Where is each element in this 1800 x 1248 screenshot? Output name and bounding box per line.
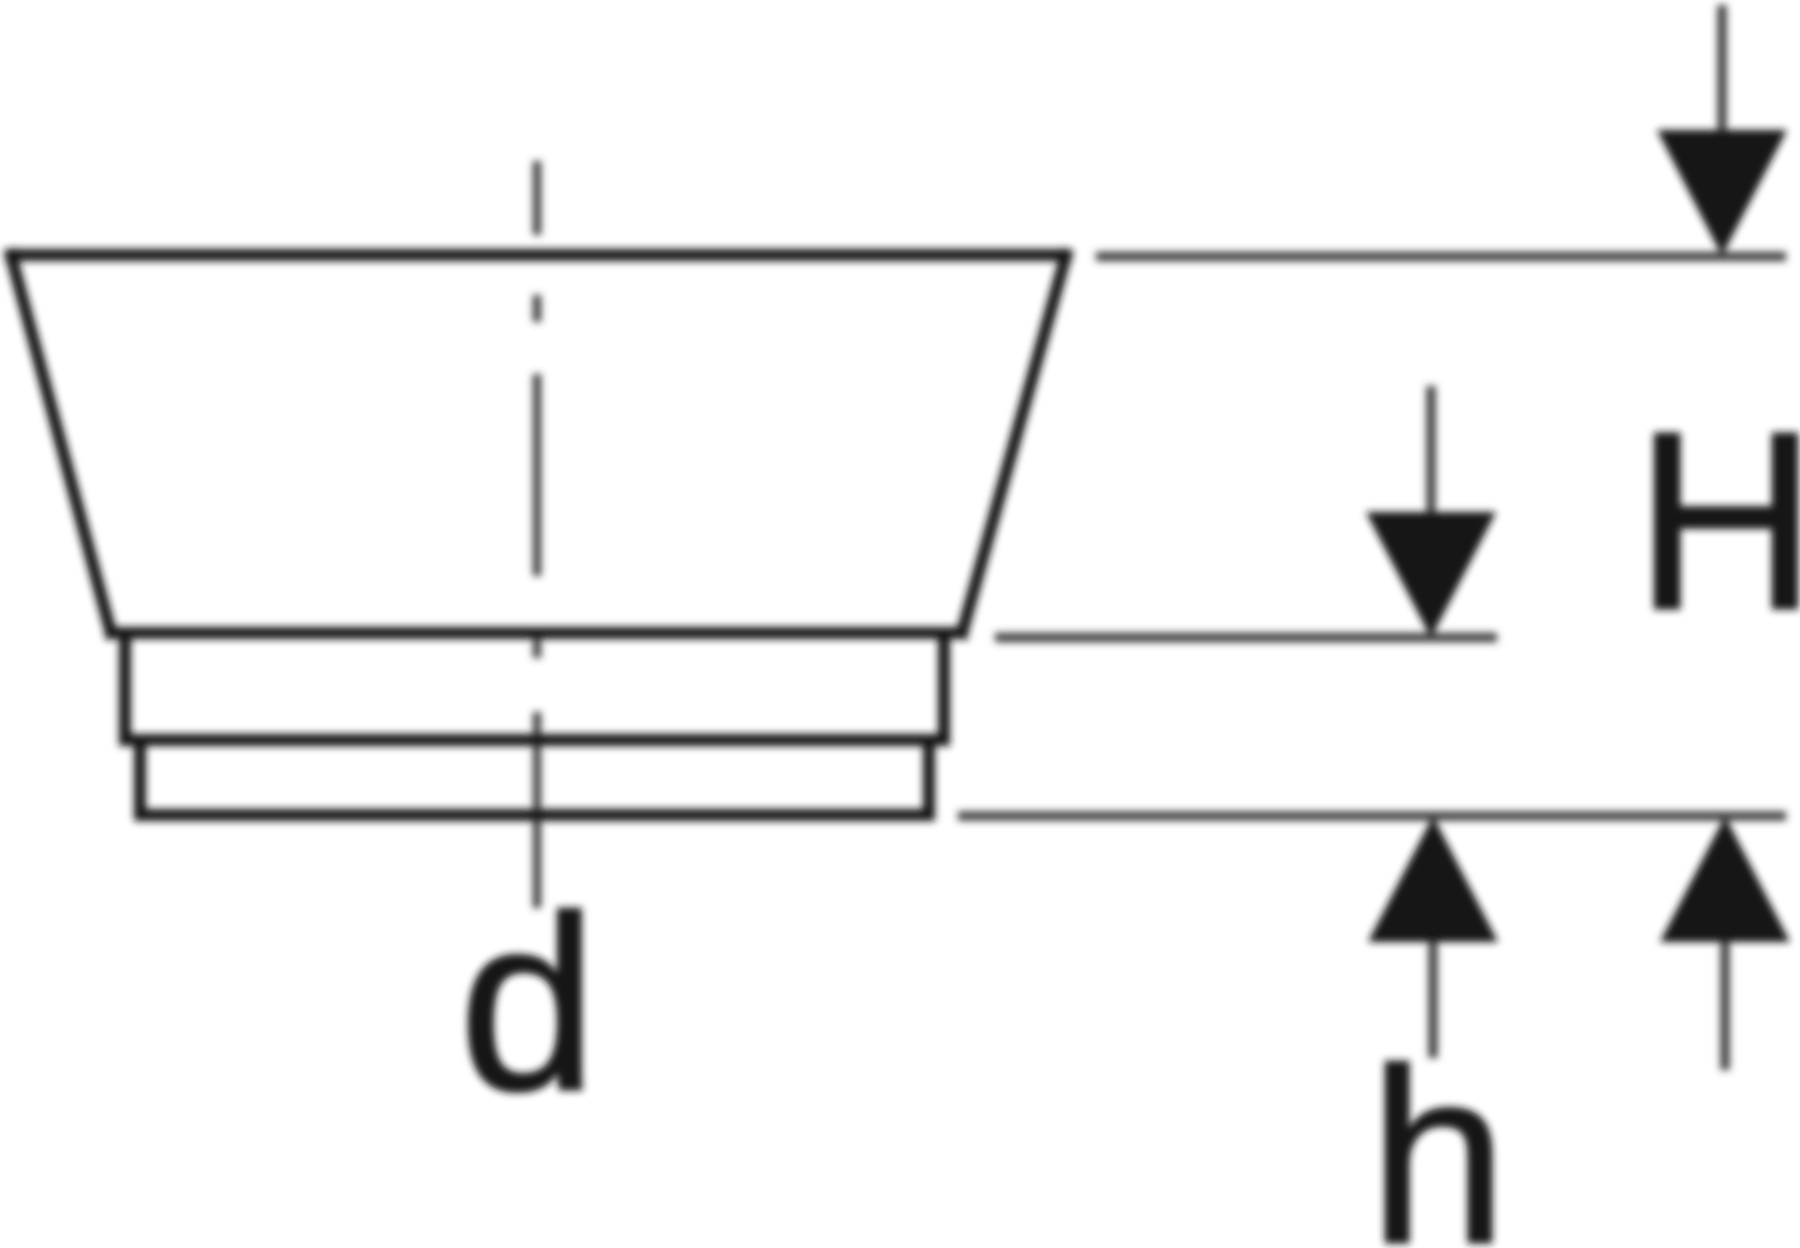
- svg-text:h: h: [1369, 1017, 1507, 1248]
- svg-text:H: H: [1635, 379, 1800, 662]
- svg-text:d: d: [459, 864, 597, 1142]
